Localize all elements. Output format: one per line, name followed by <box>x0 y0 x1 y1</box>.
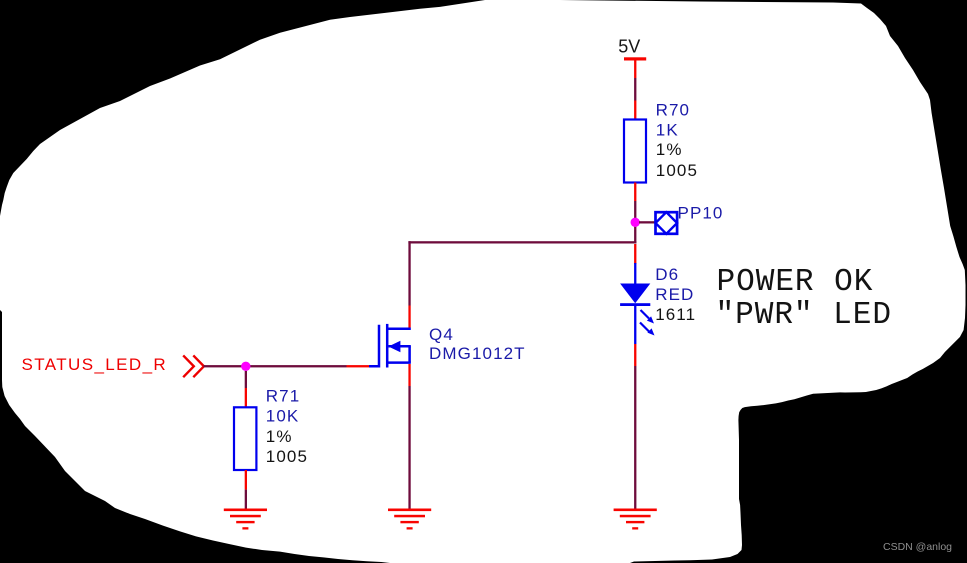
svg-text:10K: 10K <box>266 407 300 426</box>
svg-text:1611: 1611 <box>655 305 696 324</box>
svg-text:RED: RED <box>655 285 694 304</box>
svg-text:PP10: PP10 <box>678 203 724 222</box>
svg-text:1%: 1% <box>656 140 683 159</box>
svg-text:1K: 1K <box>656 121 679 140</box>
svg-text:R71: R71 <box>266 387 301 406</box>
svg-text:Q4: Q4 <box>429 325 454 344</box>
svg-text:5V: 5V <box>618 36 640 56</box>
svg-text:D6: D6 <box>655 265 679 284</box>
svg-text:DMG1012T: DMG1012T <box>429 344 526 363</box>
svg-text:POWER OK: POWER OK <box>717 265 874 300</box>
svg-text:STATUS_LED_R: STATUS_LED_R <box>22 355 168 374</box>
svg-text:1005: 1005 <box>266 447 308 466</box>
svg-text:1%: 1% <box>266 427 293 446</box>
svg-text:1005: 1005 <box>656 161 698 180</box>
svg-text:"PWR" LED: "PWR" LED <box>716 298 892 333</box>
svg-text:CSDN @anlog: CSDN @anlog <box>883 541 952 553</box>
svg-text:R70: R70 <box>656 101 691 120</box>
